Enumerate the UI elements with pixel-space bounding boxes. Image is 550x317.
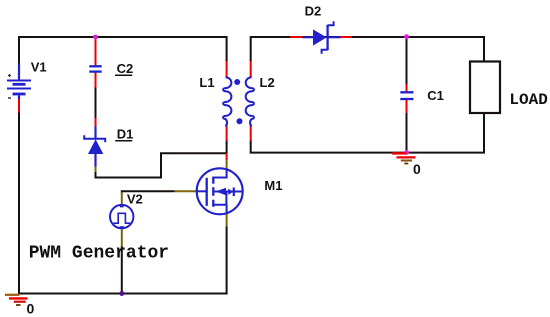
svg-text:0: 0 [27, 301, 35, 317]
svg-text:V2: V2 [127, 192, 143, 207]
LOAD resistor box [470, 62, 500, 114]
wire left rail upper (top rail to V1) [18, 36, 20, 64]
pin stub C1 top [406, 84, 408, 93]
junction dot C1 tap [404, 34, 409, 39]
pin stub L2 top [250, 61, 252, 78]
wire top rail right (L2 top to LOAD top) [251, 37, 484, 62]
battery V1 [7, 64, 31, 100]
wire top rail left (V1+ to L1 top) [18, 37, 227, 61]
pin stub C1 bottom [406, 100, 408, 113]
wire C1 bottom lead [406, 112, 408, 154]
svg-text:L2: L2 [260, 75, 275, 90]
wire secondary bottom rail (L2 bottom to LOAD bottom) [251, 113, 484, 153]
svg-text:C1: C1 [427, 88, 444, 103]
junction dot ground tap [404, 150, 409, 155]
svg-text:V1: V1 [31, 60, 47, 75]
V1 plus mark [8, 74, 11, 77]
wire V2 to M1 gate [122, 191, 175, 193]
wire C1 top lead [406, 37, 408, 85]
svg-text:PWM Generator: PWM Generator [29, 243, 169, 263]
wire C2 to D1 [95, 87, 97, 119]
wire bottom rail (gnd to M1 source) [19, 226, 227, 294]
capacitor C1 [400, 92, 413, 99]
L1 phasing dot [234, 79, 240, 85]
svg-text:M1: M1 [264, 178, 282, 193]
svg-text:LOAD: LOAD [509, 91, 547, 109]
pulse source V2 [110, 205, 133, 228]
svg-text:L1: L1 [199, 75, 214, 90]
pin stub L1 top [226, 61, 228, 78]
svg-text:D2: D2 [305, 4, 322, 19]
pin stub V2 plus (olive) [121, 192, 123, 205]
junction dot C2 tap [93, 35, 98, 40]
pin stub M1 source (olive) [226, 214, 228, 227]
pin stub D2 cathode [340, 36, 353, 38]
wire V2 minus to bottom rail [121, 246, 123, 294]
pin stub V1 bottom [18, 99, 20, 113]
label C2 (underlined) [115, 61, 133, 76]
pin stub L2 bottom [250, 125, 252, 142]
capacitor C2 [89, 66, 101, 71]
pin stub M1 drain olive part [226, 160, 228, 169]
MOSFET M1 [197, 168, 243, 214]
svg-text:0: 0 [413, 161, 421, 177]
pin stub D1 bottom (olive) [95, 166, 97, 173]
pin stub D1 top [95, 118, 97, 128]
zener diode D1 [84, 127, 105, 167]
pin stub V2 minus (olive) [121, 228, 123, 247]
wire D1 anode to drain node [96, 153, 227, 177]
junction dot V2 tap [119, 291, 124, 296]
svg-text:D1: D1 [117, 127, 134, 142]
pin stub C2 bottom [95, 73, 97, 88]
pin stub M1 drain [226, 153, 228, 160]
inductor L1 (primary) [223, 77, 231, 126]
ground symbol input 0 [5, 295, 28, 305]
pin stub D2 anode [290, 36, 304, 38]
inductor L2 (secondary) [246, 77, 254, 126]
schottky diode D2 [303, 21, 341, 54]
ground symbol output 0 [392, 153, 416, 163]
svg-text:C2: C2 [117, 61, 134, 76]
label D1 (underlined) [115, 127, 133, 142]
pin stub C2 top [95, 39, 97, 66]
wire left rail lower (V1 to bottom rail) [18, 112, 20, 294]
V1 minus mark [8, 97, 11, 99]
wire drain node (L1 bottom to M1 drain) [226, 140, 228, 154]
pin stub M1 gate (olive) [175, 190, 197, 192]
L2 phasing dot [237, 118, 243, 124]
pin stub L1 bottom [226, 125, 228, 142]
